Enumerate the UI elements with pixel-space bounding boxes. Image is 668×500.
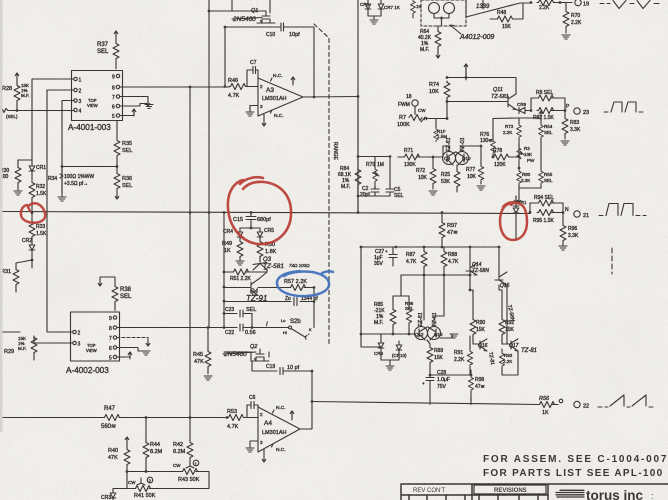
titleblock REVISIONS cell <box>474 485 546 494</box>
svg-text:10K: 10K <box>524 152 532 157</box>
svg-text:130≋: 130≋ <box>480 138 493 144</box>
resistor R32 <box>29 181 47 212</box>
wire q4 block links <box>361 271 518 401</box>
label 2N5460 struck <box>232 16 262 23</box>
svg-text:SEL: SEL <box>544 178 553 183</box>
svg-text:C7: C7 <box>250 60 257 66</box>
svg-text:Q16: Q16 <box>478 343 488 349</box>
svg-text:Lo: Lo <box>281 318 286 323</box>
svg-text:2.2K: 2.2K <box>454 357 465 363</box>
svg-text:2N5460: 2N5460 <box>232 16 256 23</box>
svg-text:R89: R89 <box>434 348 443 354</box>
ground R49 <box>236 261 244 265</box>
svg-text:15K: 15K <box>505 327 515 333</box>
svg-text:3: 3 <box>260 104 263 109</box>
wire C19 row left <box>251 361 265 371</box>
svg-text:FOR PARTS LIST SEE APL-100: FOR PARTS LIST SEE APL-100 <box>483 468 664 479</box>
svg-text:TZ-581: TZ-581 <box>263 263 284 270</box>
ground R72 <box>429 191 437 195</box>
svg-text:3: 3 <box>260 440 263 445</box>
svg-text:M.F.: M.F. <box>18 346 27 351</box>
resistor R49 <box>222 239 243 260</box>
svg-text:R37: R37 <box>97 42 109 48</box>
svg-text:8.2M: 8.2M <box>173 449 186 455</box>
svg-text:C23: C23 <box>225 307 234 313</box>
wire R34 node row y166 <box>61 165 119 168</box>
capacitor C10 <box>266 23 300 38</box>
svg-text:TZ-81: TZ-81 <box>418 312 424 327</box>
resistor R38 <box>100 277 132 311</box>
svg-text:R25: R25 <box>441 172 450 178</box>
svg-text:CR1: CR1 <box>36 165 46 171</box>
svg-text:CW: CW <box>173 463 181 468</box>
svg-text:R92: R92 <box>505 320 514 326</box>
svg-text:3.3K: 3.3K <box>568 233 579 239</box>
svg-text:2: 2 <box>79 89 82 95</box>
svg-text:R77: R77 <box>466 167 475 173</box>
nc A3 top <box>271 73 283 81</box>
pin 5 U1 <box>112 114 120 120</box>
svg-text:1.8K: 1.8K <box>265 249 277 255</box>
resistor R95 <box>533 210 563 225</box>
svg-text:3.3K: 3.3K <box>570 127 581 133</box>
ground CR9 CR10 <box>381 350 399 370</box>
node R46 left <box>189 86 192 89</box>
svg-text:R79: R79 <box>366 162 375 168</box>
svg-text:15K: 15K <box>476 327 486 333</box>
pin 9 U2 <box>109 316 117 322</box>
capacitor C22 <box>224 324 256 336</box>
resistor R86 SEL <box>393 275 444 335</box>
svg-text:Q12: Q12 <box>415 332 424 337</box>
svg-text:R90: R90 <box>476 320 485 326</box>
wire A4 out <box>300 371 313 429</box>
pin 4 U1 <box>74 108 82 114</box>
svg-text:18: 18 <box>406 94 412 100</box>
wire pin3 U2 left <box>34 336 73 343</box>
svg-text:SEL: SEL <box>122 183 132 189</box>
resistor R37 <box>97 42 119 69</box>
node CR2 bottom <box>31 259 34 268</box>
resistor R64 <box>418 26 441 53</box>
svg-text:4.7K: 4.7K <box>228 93 240 99</box>
label TZ-81 Q9 vertical <box>446 137 452 152</box>
arrow R28 top <box>15 73 19 84</box>
svg-text:R44: R44 <box>150 442 160 448</box>
svg-text:(SEL): (SEL) <box>6 114 18 119</box>
svg-text:R28: R28 <box>2 86 12 92</box>
svg-text:R7: R7 <box>399 115 406 121</box>
resistor R78 <box>492 148 521 168</box>
resistor R36 <box>114 167 132 191</box>
svg-text:+: + <box>422 381 425 386</box>
svg-text:R80: R80 <box>522 172 531 177</box>
resistor R77 <box>466 146 484 184</box>
node R47 right <box>145 416 192 419</box>
svg-text:R88: R88 <box>448 252 457 258</box>
wire main horizontal bus y212 <box>0 212 530 214</box>
svg-text:TZ-58N: TZ-58N <box>472 268 489 274</box>
ground A4 pin3 <box>246 441 258 452</box>
wire osc row y146 <box>443 145 482 148</box>
svg-text:REVISIONS: REVISIONS <box>494 488 527 494</box>
svg-text:1M: 1M <box>377 162 384 168</box>
svg-text:TZ-81: TZ-81 <box>446 137 452 152</box>
wire pin3 to x62 <box>62 101 74 194</box>
arrow R64 bottom <box>436 48 440 58</box>
IC U1 A-4001-003 <box>68 71 123 133</box>
arrow into bus at x516 <box>514 196 518 203</box>
wire pin6 ground stub <box>120 104 153 109</box>
wire pin2 to x47 <box>47 90 74 332</box>
resistor R98 <box>468 375 484 405</box>
svg-text:R96: R96 <box>568 226 577 232</box>
arrow vplus osc <box>464 64 468 78</box>
svg-text:CW: CW <box>418 108 426 113</box>
svg-text:10K: 10K <box>429 89 439 95</box>
svg-text:6: 6 <box>112 105 115 111</box>
svg-text:19: 19 <box>583 2 589 8</box>
svg-text:+3.5Ω pf→: +3.5Ω pf→ <box>64 181 88 187</box>
svg-text:TZ-581: TZ-581 <box>491 94 509 100</box>
capacitor C2 <box>360 186 379 198</box>
svg-text:TZ-81: TZ-81 <box>521 348 537 354</box>
wire top rail into block <box>530 2 532 5</box>
capacitor C19 <box>265 364 313 375</box>
diode CR6 <box>360 0 371 11</box>
svg-text:N.C.: N.C. <box>273 73 283 79</box>
svg-text:R87: R87 <box>406 252 415 258</box>
transistor Q3 <box>253 256 272 272</box>
arrow R36 bottom <box>115 190 119 199</box>
svg-text:R54: R54 <box>544 124 553 129</box>
resistor R88 <box>441 247 459 275</box>
resistor R29 <box>4 336 37 360</box>
svg-text:R53: R53 <box>227 409 237 415</box>
resistor R47 <box>101 406 121 430</box>
wire Q2 drain to x224 <box>224 352 251 361</box>
resistor R31 <box>1 260 32 292</box>
svg-text:47≋: 47≋ <box>447 230 458 236</box>
svg-text:2: 2 <box>260 84 263 89</box>
svg-text:REV CON'T: REV CON'T <box>413 488 445 494</box>
svg-text:R34: R34 <box>48 176 57 182</box>
svg-text:5: 5 <box>112 114 115 120</box>
resistor R46 <box>228 78 247 99</box>
potentiometer R7 <box>397 107 428 129</box>
label Q3 TZ-581 <box>263 263 310 270</box>
svg-text:C10: C10 <box>266 32 275 38</box>
transistor Q2 <box>250 344 269 361</box>
nc A4 bottom <box>272 444 286 453</box>
wire pin1 to x32 <box>32 79 74 164</box>
svg-text:1K: 1K <box>224 248 231 254</box>
svg-text:2: 2 <box>260 412 263 417</box>
resistor R87 <box>406 247 427 275</box>
resistor R85 <box>374 296 396 335</box>
capacitor C27 <box>374 247 397 267</box>
waveform sawtooth out22 <box>598 395 653 407</box>
svg-text:C19: C19 <box>266 364 275 370</box>
resistor R84 <box>338 166 361 196</box>
svg-text:S2b: S2b <box>290 319 301 325</box>
svg-text:R41 50K: R41 50K <box>134 493 156 499</box>
border mark right <box>611 248 613 274</box>
resistor R69 <box>530 0 572 11</box>
capacitor C23 <box>223 307 257 328</box>
transistor Q11 <box>447 87 516 110</box>
svg-text:1339: 1339 <box>476 4 490 10</box>
resistor R56 <box>538 396 556 416</box>
terminal FWM 18 <box>398 94 426 113</box>
svg-text:680pf: 680pf <box>257 217 271 223</box>
svg-text:R78: R78 <box>493 148 502 154</box>
svg-text:560≋: 560≋ <box>101 424 116 430</box>
annotation blue ellipse R57 <box>277 271 333 296</box>
svg-text:R97: R97 <box>447 223 457 229</box>
svg-text:+: + <box>385 249 388 254</box>
wire A3 out y97 <box>303 95 359 98</box>
wire bus nodes right <box>515 211 532 214</box>
svg-text:Q11: Q11 <box>493 87 503 93</box>
svg-text:A-4002-003: A-4002-003 <box>66 366 109 375</box>
svg-text:120K: 120K <box>494 162 506 168</box>
resistor R83 <box>562 111 581 140</box>
svg-text:R51 2.2K: R51 2.2K <box>230 276 252 282</box>
svg-text:CR9: CR9 <box>374 351 383 356</box>
svg-text:CR5: CR5 <box>264 228 274 234</box>
scan edge left strip <box>0 0 3 432</box>
transistor Q16 <box>473 339 488 351</box>
svg-text:A3: A3 <box>266 87 274 94</box>
transistor Q13 <box>428 320 444 340</box>
svg-text:TZ-81: TZ-81 <box>487 351 495 365</box>
svg-text:130K: 130K <box>404 162 416 168</box>
wire pin6 U2 ground <box>117 348 150 356</box>
capacitor Zo 1344pf <box>285 296 318 306</box>
svg-text:LM301AH: LM301AH <box>262 430 286 436</box>
label TZ-81 Q12 vertical <box>418 312 424 327</box>
diode CR12 red-circled <box>513 200 527 240</box>
svg-text:7: 7 <box>109 336 112 342</box>
svg-text:47K: 47K <box>194 359 204 365</box>
svg-text:A4012-009: A4012-009 <box>459 34 494 41</box>
annotation red circle C15 <box>228 177 291 244</box>
pin 2 U2 <box>73 330 81 336</box>
resistor R45 <box>193 328 211 375</box>
waveform square out23 <box>604 102 643 112</box>
svg-text:TZ-01: TZ-01 <box>432 312 438 327</box>
wire vertical x209 top <box>208 0 211 214</box>
resistor R94 SEL loop <box>530 195 563 213</box>
pin 3 U1 <box>74 99 82 105</box>
svg-text:47≋: 47≋ <box>475 384 485 390</box>
svg-text:53K: 53K <box>441 179 451 185</box>
label TZ-81 Q16 vertical <box>487 351 495 365</box>
resistor R72 <box>416 156 436 189</box>
capacitor C5 <box>357 168 404 199</box>
wire big triangle edge <box>466 0 531 17</box>
resistor R8 SEL loop <box>530 90 565 112</box>
ground R30 <box>14 191 22 195</box>
svg-text:C22: C22 <box>225 330 234 336</box>
svg-text:RANGE: RANGE <box>332 142 338 160</box>
label TZ-81 Q13 vertical <box>432 312 438 327</box>
annotation red circle node left <box>21 203 45 222</box>
waveform square out21 <box>599 204 646 216</box>
svg-text:Q1: Q1 <box>251 8 258 14</box>
svg-text:R56: R56 <box>539 396 550 402</box>
svg-text:15K: 15K <box>502 24 512 30</box>
wire pin5 U2 stub <box>117 352 132 359</box>
svg-text:R38: R38 <box>120 287 132 293</box>
diode CR2 <box>22 238 35 260</box>
svg-text:LM301AH: LM301AH <box>262 96 286 102</box>
titleblock frame <box>401 484 668 500</box>
svg-text:10pf: 10pf <box>289 32 300 38</box>
wire pin5 stub <box>120 109 136 116</box>
resistor R96 <box>560 213 579 246</box>
transistor Q9 <box>443 146 456 165</box>
transistor pair in module <box>429 3 455 27</box>
resistor R51 <box>230 269 252 282</box>
svg-text:15K: 15K <box>434 355 444 361</box>
potentiometer R43 <box>173 460 200 483</box>
svg-text:A4: A4 <box>264 420 272 427</box>
potentiometer R3 <box>517 144 535 168</box>
svg-text:R83: R83 <box>570 120 579 126</box>
resistor R63 <box>411 0 422 18</box>
arrow R80 bottom <box>517 190 521 203</box>
label RANGE vertical <box>332 142 338 160</box>
arrow R38 left <box>98 277 102 286</box>
svg-text:M.F.: M.F. <box>420 47 429 53</box>
logo torus inc <box>556 488 654 500</box>
ground R70 <box>562 35 570 39</box>
IC U2 A-4002-003 <box>66 312 120 375</box>
text FOR PARTS note <box>483 468 664 479</box>
svg-text:100K: 100K <box>397 122 410 128</box>
nc A3 bottom <box>271 110 284 119</box>
capacitor C28 <box>422 370 450 405</box>
label TZ-01 Q10 vertical <box>460 137 466 152</box>
wire pin2 U2 left <box>0 331 73 333</box>
svg-text:1: 1 <box>79 78 82 84</box>
potentiometer R41 <box>127 472 209 500</box>
svg-text:M.F.: M.F. <box>374 320 383 326</box>
svg-text:Zo: Zo <box>285 296 291 302</box>
svg-text:1.5K: 1.5K <box>36 231 47 237</box>
svg-text:10 pf: 10 pf <box>287 365 300 371</box>
svg-text:K: K <box>309 327 312 332</box>
resistor R48 <box>490 3 523 30</box>
wire vertical top x232 <box>231 0 233 11</box>
diode CR5 <box>257 228 274 239</box>
wire osc links <box>436 64 519 157</box>
wire vertical x358 <box>357 0 359 213</box>
wire osc top rail y80 <box>446 76 516 94</box>
annotation red circle diode right <box>500 202 527 240</box>
svg-text:R42: R42 <box>173 442 183 448</box>
wire pin8 to R46 row <box>120 86 229 88</box>
resistor R1F <box>434 119 448 142</box>
resistor R54 <box>539 118 553 144</box>
wire vertical x190 <box>189 87 192 418</box>
transistor Q1 <box>251 8 275 23</box>
ground A3 pin3 <box>246 106 258 117</box>
svg-text:SEL: SEL <box>405 306 414 311</box>
svg-text:Q2: Q2 <box>250 344 257 350</box>
wire vertical top x270 <box>269 0 271 13</box>
svg-text:N.C.: N.C. <box>274 113 284 119</box>
svg-text:1.5K: 1.5K <box>36 191 47 197</box>
resistor R25 <box>441 165 460 192</box>
wire range block frame <box>357 97 392 213</box>
arrow A4 vminus <box>262 449 266 462</box>
svg-text:R47: R47 <box>104 406 116 412</box>
text FOR ASSEM note <box>483 454 668 465</box>
svg-text:FWM: FWM <box>398 102 410 108</box>
svg-text:SEL: SEL <box>97 49 109 55</box>
wire bottom output bus y405 <box>312 402 538 405</box>
resistor R73 <box>503 118 521 144</box>
transistor Q4 <box>224 272 267 296</box>
svg-text:CW: CW <box>128 480 136 485</box>
svg-text:4.7K: 4.7K <box>448 259 459 265</box>
wire vertical x225 <box>224 26 227 88</box>
svg-text:SEL: SEL <box>120 294 132 300</box>
pin 8 U2 <box>109 326 117 332</box>
svg-text:M.F.: M.F. <box>341 184 350 190</box>
svg-text:4.7K: 4.7K <box>227 424 239 430</box>
wire Q4 collector row y272 <box>223 271 267 274</box>
resistor R44 <box>143 418 163 472</box>
wire vertical x209 mid <box>207 213 210 329</box>
svg-text:R71: R71 <box>404 148 413 154</box>
svg-text:6: 6 <box>109 346 112 352</box>
wire pin4 row y110 <box>8 109 74 112</box>
wire lower-left bus y417 <box>0 417 227 419</box>
svg-text:75V: 75V <box>437 384 447 390</box>
label TZ-58N Q15 vertical <box>506 304 515 322</box>
svg-text:R94 SEL: R94 SEL <box>534 195 554 201</box>
resistor R40 <box>108 447 130 471</box>
svg-text:4: 4 <box>79 109 82 115</box>
svg-text:7: 7 <box>112 95 115 101</box>
svg-text:8.2M: 8.2M <box>150 449 163 455</box>
svg-text:1K: 1K <box>542 410 549 416</box>
node small o out22 <box>556 399 563 404</box>
transistor Q10 <box>456 146 472 165</box>
switch S2b <box>281 318 312 341</box>
module A4012-009 dashed box <box>421 0 466 26</box>
resistor R91 <box>454 336 473 375</box>
pin 5 U2 <box>109 355 117 361</box>
arrow R54 top <box>519 111 543 118</box>
svg-text:Q15: Q15 <box>500 283 510 289</box>
svg-text:47K: 47K <box>108 455 118 461</box>
wire A3 pin2 <box>247 86 258 88</box>
svg-text:23: 23 <box>583 110 589 116</box>
resistor R71 <box>398 148 443 168</box>
svg-text:PW: PW <box>527 158 535 163</box>
svg-text:2.2K: 2.2K <box>503 359 512 364</box>
wire Q4 base row y287 <box>258 286 315 289</box>
resistor R42 <box>173 418 193 464</box>
resistor R28 <box>2 83 30 110</box>
svg-text:100Ω 1%WW: 100Ω 1%WW <box>64 174 94 180</box>
svg-text:74Ω 100Ω: 74Ω 100Ω <box>289 263 310 268</box>
